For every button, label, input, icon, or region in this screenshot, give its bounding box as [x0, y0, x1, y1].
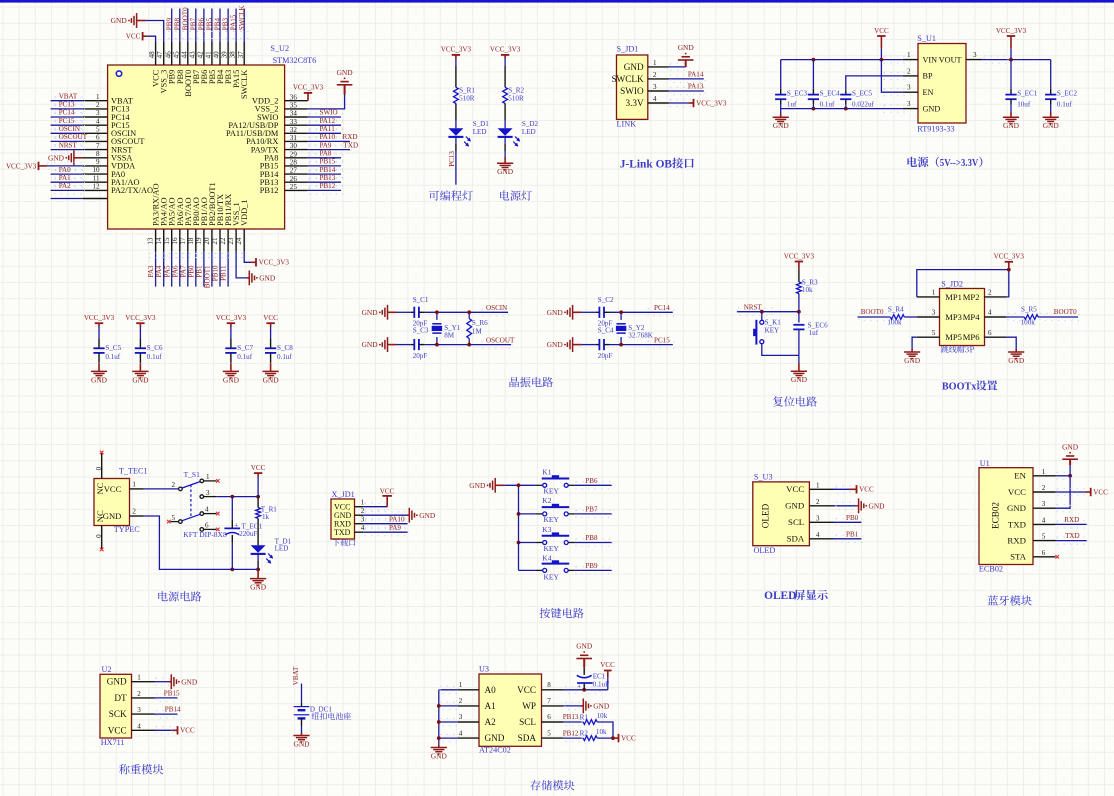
svg-text:17: 17: [179, 237, 187, 245]
svg-text:24: 24: [235, 237, 243, 245]
key K2: [536, 496, 575, 524]
capacitor S_EC4 0.1uf: [808, 60, 840, 109]
svg-text:VCC_3V3: VCC_3V3: [259, 259, 290, 267]
svg-text:VCC: VCC: [621, 735, 636, 743]
svg-text:PA3: PA3: [147, 265, 155, 277]
display S_U3 designator: [754, 473, 773, 482]
svg-text:PA2/TX/AO: PA2/TX/AO: [111, 186, 153, 195]
svg-text:0: 0: [95, 534, 103, 538]
ground below S_C8: [263, 363, 280, 384]
svg-text:BOOT0: BOOT0: [861, 308, 884, 316]
svg-text:VCC: VCC: [874, 27, 889, 35]
mcu pin 28 PB15: [260, 159, 308, 171]
wire TEC1 VCC to switch pin 2: [144, 488, 179, 490]
svg-text:KEY: KEY: [544, 572, 560, 581]
svg-text:GND: GND: [223, 375, 240, 384]
svg-text:1: 1: [932, 289, 936, 297]
svg-text:33: 33: [290, 118, 298, 126]
svg-text:PA10: PA10: [320, 133, 336, 141]
svg-text:8M: 8M: [444, 331, 455, 339]
svg-text:K3: K3: [542, 525, 551, 534]
T_TEC1 pin 2 GND: [103, 508, 144, 521]
svg-text:OSCOUT: OSCOUT: [486, 336, 515, 344]
title 存储模块: [530, 780, 574, 790]
svg-text:PC15: PC15: [654, 336, 670, 344]
svg-text:2: 2: [171, 481, 175, 489]
wire EN to gnd column: [1056, 472, 1071, 479]
svg-text:3: 3: [816, 514, 820, 522]
svg-text:2: 2: [459, 697, 463, 705]
key bus vertical: [518, 485, 520, 570]
wire + net label PA1 (mcu left pin 11): [51, 174, 85, 186]
svg-text:5: 5: [547, 729, 551, 737]
wire S_R2 to S_D2: [504, 103, 506, 128]
mcu extra pin stub: [51, 198, 108, 200]
svg-text:BOOT0: BOOT0: [1054, 308, 1077, 316]
mcu pin 41 PB5 (top): [205, 42, 217, 84]
display S_U3 pin 3 SCL: [788, 514, 833, 527]
wire + net label PB0 at OLED pin 3: [834, 514, 863, 526]
svg-text:VCC_3V3: VCC_3V3: [994, 253, 1025, 261]
jumper S_JD2 pins MP1 MP2: [917, 289, 1007, 302]
svg-text:4: 4: [137, 722, 141, 730]
svg-text:GND: GND: [362, 308, 379, 317]
mcu pin 1 VBAT: [83, 93, 133, 106]
resistor S_R1 510R: [454, 87, 476, 104]
ground at key bus: [469, 478, 504, 493]
mcu pin 44 BOOT0 (top): [180, 42, 192, 97]
svg-text:2: 2: [137, 690, 141, 698]
eeprom U3 comment AT24C02: [479, 746, 511, 755]
svg-text:GND: GND: [103, 511, 122, 521]
wire + net label PB0 (mcu bottom pin 18): [187, 252, 195, 287]
svg-text:GND: GND: [1003, 121, 1020, 130]
mcu U2 designator S_U2: [270, 44, 289, 53]
wire + power VCC at X_JD1 pin 1: [363, 487, 394, 510]
connector X_JD1 pin 2 GND: [334, 507, 365, 520]
regulator S_U1 pin VOUT: [939, 51, 982, 64]
junction S_Y1 top: [435, 310, 439, 314]
svg-text:VOUT: VOUT: [939, 55, 962, 64]
display S_U3 pin 1 VCC: [786, 481, 833, 494]
svg-text:OLED: OLED: [754, 546, 776, 555]
svg-text:BP: BP: [923, 72, 933, 81]
svg-text:3: 3: [206, 489, 210, 497]
svg-text:0.022uf: 0.022uf: [852, 100, 875, 108]
wire + net label PC13 (mcu left pin 2): [51, 101, 85, 113]
net label PC15: [654, 336, 670, 344]
wire PC15 rail: [610, 341, 675, 348]
svg-text:7: 7: [547, 697, 551, 705]
net label OSCIN: [486, 304, 507, 312]
svg-text:GND: GND: [785, 501, 804, 511]
capacitor T_EC1 220uF: [224, 520, 262, 538]
wire S_R1 to S_D1: [455, 103, 457, 128]
svg-text:VCC_3V3: VCC_3V3: [441, 46, 472, 54]
svg-text:PC15: PC15: [59, 117, 75, 125]
bluetooth U1 body: [979, 468, 1033, 565]
resistor S_R5 100k: [1021, 306, 1039, 327]
bluetooth U1 inner label ECB02: [990, 502, 1000, 529]
svg-text:3: 3: [653, 83, 657, 91]
junction S_Y1 bottom: [435, 343, 439, 347]
wire + net label PA14 at S_JD1 pin 2: [669, 71, 705, 83]
mcu pin 45 PB8 (top): [172, 42, 185, 84]
mcu pin 23 VSS_1 (bottom): [227, 202, 241, 252]
net label PC14: [654, 304, 670, 312]
wire battery to ground: [301, 718, 303, 733]
resistor S_R6 1M: [467, 312, 488, 344]
wire EC1 column: [583, 683, 585, 690]
mcu pin 39 PB3 (top): [221, 42, 233, 84]
svg-text:PC14: PC14: [59, 109, 75, 117]
wire BOOT0 to S_R4: [858, 313, 891, 320]
switch pin 6 stub: [204, 528, 220, 532]
connector S_JD1 body: [617, 55, 648, 119]
bluetooth U1 pin 5 RXD: [1007, 533, 1055, 546]
svg-text:EN: EN: [923, 88, 934, 97]
mcu pin 4 PC15: [83, 117, 130, 130]
bluetooth U1 pin 1 EN: [1014, 468, 1055, 481]
svg-text:PB7: PB7: [189, 18, 197, 31]
svg-text:13: 13: [147, 237, 155, 245]
svg-text:GND: GND: [485, 733, 505, 743]
svg-text:9: 9: [96, 158, 100, 166]
net label TXD on PA9: [344, 141, 359, 149]
svg-text:1: 1: [137, 674, 141, 682]
svg-text:36: 36: [290, 93, 298, 101]
svg-text:NRST: NRST: [744, 303, 763, 311]
wire + net label PA10 (mcu right pin 31): [308, 133, 352, 145]
svg-text:GND: GND: [259, 274, 276, 283]
wire + net label PB8 at K3: [575, 534, 612, 546]
svg-text:VBAT: VBAT: [292, 666, 300, 685]
display S_U3 inner label OLED: [761, 503, 771, 528]
ground below S_EC3: [773, 109, 790, 131]
wire EN to VIN: [881, 60, 904, 96]
svg-text:AT24C02: AT24C02: [479, 746, 511, 755]
mcu pin 2 PC13: [83, 101, 130, 114]
svg-text:PB9: PB9: [165, 18, 173, 31]
svg-text:5V-->3.3V: 5V-->3.3V: [940, 157, 979, 169]
svg-text:MP6: MP6: [963, 332, 980, 342]
svg-text:VCC: VCC: [263, 314, 278, 322]
svg-text:VCC_3V3: VCC_3V3: [293, 84, 324, 92]
wire + net label PB8 (mcu top pin 45): [173, 9, 181, 43]
resistor R2 10k: [580, 728, 607, 741]
svg-text:5: 5: [96, 126, 100, 134]
wire T_EC1 to gnd rail: [231, 535, 233, 570]
svg-text:S_C2: S_C2: [598, 296, 614, 304]
svg-text:10k: 10k: [596, 728, 607, 736]
svg-text:ECB02: ECB02: [990, 502, 1000, 529]
junction bus K2: [517, 512, 521, 516]
capacitor S_C2 20pF: [596, 296, 614, 328]
wire + net label SWIO (mcu right pin 34): [308, 109, 343, 121]
svg-text:6: 6: [205, 521, 209, 529]
svg-text:3: 3: [907, 100, 911, 108]
wire + net label NRST (mcu left pin 7): [51, 141, 85, 153]
wire + ground at HX711 pin 1: [155, 674, 198, 689]
module U2 body: [100, 674, 132, 738]
svg-text:7: 7: [96, 142, 100, 150]
svg-text:47: 47: [156, 51, 164, 59]
svg-text:PA10: PA10: [389, 515, 405, 523]
svg-text:S_R6: S_R6: [472, 319, 488, 327]
mcu pin 10 PA0: [83, 166, 125, 179]
svg-text:RXD: RXD: [1007, 536, 1026, 546]
display S_U3 comment OLED: [754, 546, 776, 555]
svg-text:PA11: PA11: [320, 125, 336, 133]
wire MP1 loop to VCC_3V3: [917, 270, 1009, 297]
svg-text:0: 0: [95, 466, 103, 470]
regulator S_U1 body: [918, 44, 966, 124]
svg-text:D_DC1: D_DC1: [310, 706, 333, 714]
svg-text:0.1uf: 0.1uf: [237, 353, 252, 361]
svg-text:S_JD1: S_JD1: [617, 45, 639, 54]
svg-text:20: 20: [203, 237, 211, 245]
svg-text:VCC: VCC: [600, 661, 615, 669]
svg-text:0.1uf: 0.1uf: [277, 353, 292, 361]
wire + net label PB12 at SDA: [563, 729, 584, 741]
svg-text:1: 1: [206, 473, 210, 481]
wire + power VCC at OLED pin 1: [834, 485, 874, 494]
wire VBAT to battery: [301, 684, 303, 707]
svg-text:EN: EN: [1014, 471, 1026, 481]
crystal S_Y2 32.768K: [616, 312, 654, 344]
wire VCC pin 8: [563, 686, 608, 693]
svg-text:PC13: PC13: [448, 151, 456, 167]
module U2 designator: [102, 665, 112, 674]
wire + net label PB13 (mcu right pin 26): [308, 174, 343, 186]
svg-text:4: 4: [988, 309, 992, 317]
capacitor S_EC1 10uf + ground: [1003, 60, 1038, 131]
junction bus A2: [437, 720, 441, 724]
svg-text:PA13: PA13: [688, 83, 704, 91]
svg-text:31: 31: [290, 134, 298, 142]
wire T_R1 to T_D1: [257, 518, 259, 545]
svg-text:NRST: NRST: [59, 141, 78, 149]
mcu pin 9 VDDA: [83, 158, 135, 171]
power VCC at SDA: [613, 734, 636, 743]
regulator S_U1 pin GND: [903, 100, 941, 113]
resistor S_R3 10k: [797, 279, 819, 295]
svg-text:GND: GND: [419, 511, 436, 520]
svg-text:PC13: PC13: [59, 101, 75, 109]
svg-text:GND: GND: [1043, 121, 1060, 130]
svg-text:PA8: PA8: [320, 149, 332, 157]
svg-text:GND: GND: [869, 502, 886, 511]
svg-text:PB11: PB11: [220, 265, 228, 281]
wire + net label VBAT (mcu left pin 1): [51, 92, 85, 104]
svg-text:S_C4: S_C4: [598, 327, 614, 335]
regulator S_U1 pin EN: [903, 84, 934, 97]
bluetooth U1 designator: [980, 459, 990, 468]
connector X_JD1 pin 3 RXD: [334, 516, 365, 529]
title BOOTx设置: [942, 380, 997, 392]
key K3: [536, 525, 575, 553]
wire gnd to K1: [504, 484, 536, 486]
svg-text:PA7: PA7: [179, 265, 187, 277]
svg-text:8: 8: [96, 150, 100, 158]
wire + net label PA9 at X_JD1 pin 4: [363, 524, 408, 536]
svg-text:S_C6: S_C6: [147, 344, 163, 352]
wire + ground at WP pin 7: [563, 699, 610, 714]
svg-text:40: 40: [213, 51, 221, 59]
wire EC1 to ground: [583, 667, 585, 675]
connector T_TEC1 comment TYPEC: [114, 525, 140, 534]
wire + net label BOOT1 (mcu bottom pin 20): [204, 252, 212, 288]
svg-text:PB1: PB1: [196, 265, 204, 278]
svg-text:GND: GND: [497, 167, 514, 176]
mcu pin 26 PB13: [260, 175, 308, 187]
eeprom U3 designator: [479, 665, 489, 674]
mcu pin 36 VDD_2: [252, 93, 308, 105]
svg-text:VCC_3V3: VCC_3V3: [784, 252, 815, 260]
eeprom U3 pins 2 A1 / 7 WP: [458, 697, 563, 711]
capacitor S_EC2 0.1uf + ground: [1043, 60, 1078, 131]
svg-text:TXD: TXD: [344, 141, 359, 149]
wire + net label PA0 (mcu left pin 10): [51, 166, 85, 178]
power VCC_3V3 above S_R2: [490, 46, 521, 59]
module U2 pin 1 GND: [107, 674, 155, 687]
wire S_K1 to gnd rail: [762, 344, 799, 356]
svg-text:11: 11: [93, 174, 100, 182]
mcu pin 14 PA4/AO (bottom): [155, 197, 169, 251]
jumper S_JD2 pins MP5 MP6: [917, 329, 1007, 342]
svg-text:T_TEC1: T_TEC1: [119, 466, 148, 475]
svg-text:OLED: OLED: [761, 503, 771, 528]
svg-text:J-Link OB: J-Link OB: [620, 158, 673, 170]
svg-text:SCK: SCK: [109, 709, 127, 719]
wire + net label PA6 (mcu bottom pin 16): [171, 252, 180, 287]
svg-text:PB14: PB14: [320, 166, 336, 174]
regulator S_U1 pin BP: [903, 67, 933, 80]
capacitor S_C3 20pF: [411, 327, 429, 361]
ground at S_C1: [362, 305, 411, 320]
svg-text:VCC: VCC: [859, 486, 874, 494]
junction cap column: [230, 495, 234, 499]
svg-text:100k: 100k: [1021, 318, 1036, 326]
ground at S_C3: [362, 337, 411, 352]
svg-text:OLED: OLED: [764, 590, 796, 602]
svg-text:SDA: SDA: [518, 733, 537, 743]
wire switch pin 3 to VCC column: [216, 496, 258, 498]
svg-text:GND: GND: [547, 308, 564, 317]
svg-text:HX711: HX711: [101, 738, 125, 747]
junction NRST/key: [760, 310, 764, 314]
svg-text:42: 42: [197, 51, 205, 59]
wire + net label PB7 at K2: [575, 506, 612, 518]
wire + net label PA15 (mcu top pin 38): [230, 9, 238, 43]
svg-text:35: 35: [290, 102, 298, 110]
svg-text:0.1uf: 0.1uf: [105, 353, 120, 361]
bluetooth U1 pin 4 TXD: [1008, 516, 1056, 529]
jumper S_JD2 comment 跳线帽3P: [941, 345, 974, 352]
svg-text:VCC_3V3: VCC_3V3: [6, 162, 37, 170]
svg-text:MP2: MP2: [963, 292, 980, 302]
junction NRST/cap: [797, 310, 801, 314]
key S_K1: [753, 319, 781, 345]
svg-text:PA12: PA12: [320, 117, 336, 125]
svg-text:30: 30: [290, 142, 298, 150]
wire + net label PB9 (mcu top pin 46): [165, 9, 173, 43]
svg-text:S_C3: S_C3: [413, 327, 429, 335]
svg-text:1: 1: [1042, 468, 1046, 476]
svg-text:SDA: SDA: [787, 534, 805, 544]
title 晶振电路: [509, 377, 553, 387]
power VCC_3V3 above S_C6: [125, 314, 156, 327]
svg-text:2: 2: [988, 289, 992, 297]
display S_U3 body: [753, 482, 810, 546]
connector S_JD1 designator: [617, 45, 639, 54]
ground at mcu VSS_1 pin 23: [236, 252, 276, 285]
svg-text:14: 14: [155, 237, 163, 245]
resistor S_R2 510R: [503, 87, 525, 104]
switch pin 1 stub: [204, 479, 220, 483]
wire + net label PA5 (mcu bottom pin 15): [163, 252, 171, 287]
svg-text:1: 1: [96, 93, 100, 101]
junction VIN/VCC: [880, 58, 884, 62]
caption 电源灯: [500, 190, 532, 200]
svg-text:3: 3: [932, 309, 936, 317]
svg-text:A2: A2: [485, 717, 497, 727]
eeprom U3 pins 3 A2 / 6 SCL: [458, 713, 563, 727]
svg-text:PB12: PB12: [563, 729, 579, 737]
svg-text:GND: GND: [1062, 442, 1079, 451]
mcu pin 22 PB11/RX (bottom): [219, 194, 233, 252]
ground below eeprom bus: [431, 745, 448, 761]
svg-text:GND: GND: [111, 16, 128, 25]
svg-text:VCC: VCC: [380, 487, 395, 495]
svg-text:GND: GND: [431, 751, 448, 760]
wire + net label PB14 (mcu right pin 27): [308, 166, 343, 178]
svg-text:X_JD1: X_JD1: [332, 490, 355, 499]
title 电源电路: [158, 591, 201, 601]
power VCC_3V3 above S_EC1: [996, 27, 1027, 60]
svg-text:1: 1: [361, 499, 365, 507]
wire + net label PB5 (mcu top pin 41): [206, 9, 214, 43]
wire + net label PA10 at X_JD1 pin 3: [363, 515, 408, 527]
wire OSCIN rail: [424, 309, 509, 316]
svg-text:S_U1: S_U1: [917, 34, 936, 43]
svg-text:220uF: 220uF: [239, 530, 257, 538]
svg-text:PB6: PB6: [198, 18, 206, 31]
svg-text:4: 4: [205, 506, 209, 514]
wire VCC_3V3 to S_R3: [798, 269, 800, 282]
regulator S_U1 designator: [917, 34, 936, 43]
svg-text:PB8: PB8: [585, 534, 598, 542]
svg-text:2: 2: [1042, 484, 1046, 492]
jumper S_JD2 pins MP3 MP4: [917, 309, 1007, 322]
svg-text:A0: A0: [485, 685, 497, 695]
junction bus K1: [517, 483, 521, 487]
svg-text:MP3: MP3: [945, 312, 962, 322]
svg-text:A1: A1: [485, 701, 497, 711]
wire + net label RXD at bluetooth pin 4: [1056, 516, 1088, 528]
wire + net label PB3 (mcu top pin 39): [222, 9, 230, 43]
ground below S_C5: [91, 363, 108, 384]
wire bus to K3: [519, 542, 536, 544]
svg-text:20pF: 20pF: [598, 352, 613, 360]
module U2 comment HX711: [101, 738, 125, 747]
svg-text:S_EC5: S_EC5: [852, 90, 873, 98]
svg-text:6: 6: [988, 329, 992, 337]
mcu pin 27 PB14: [260, 167, 308, 179]
svg-text:PB3: PB3: [222, 18, 230, 31]
svg-text:VCC: VCC: [180, 727, 195, 735]
svg-text:29: 29: [290, 150, 298, 158]
